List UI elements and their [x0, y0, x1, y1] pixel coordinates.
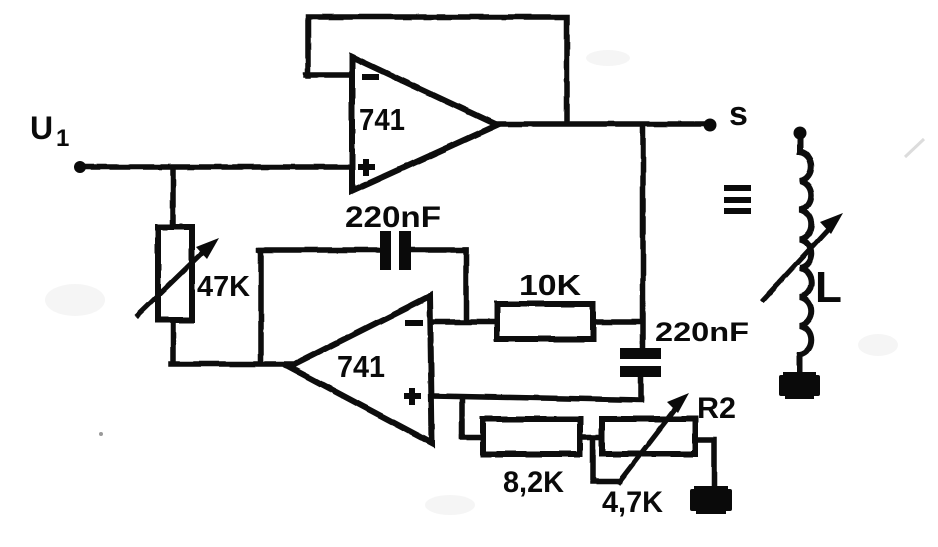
svg-text:741: 741 [359, 102, 405, 137]
svg-text:R2: R2 [697, 392, 736, 425]
svg-text:L: L [815, 263, 842, 312]
svg-text:s: s [729, 95, 748, 133]
svg-text:10K: 10K [519, 270, 581, 302]
svg-text:8,2K: 8,2K [503, 466, 564, 499]
svg-text:220nF: 220nF [345, 201, 441, 234]
svg-text:4,7K: 4,7K [602, 486, 663, 519]
svg-text:47K: 47K [197, 271, 250, 303]
svg-text:1: 1 [56, 125, 69, 152]
svg-text:U: U [30, 110, 53, 146]
svg-text:741: 741 [337, 349, 385, 384]
svg-text:220nF: 220nF [655, 317, 749, 347]
